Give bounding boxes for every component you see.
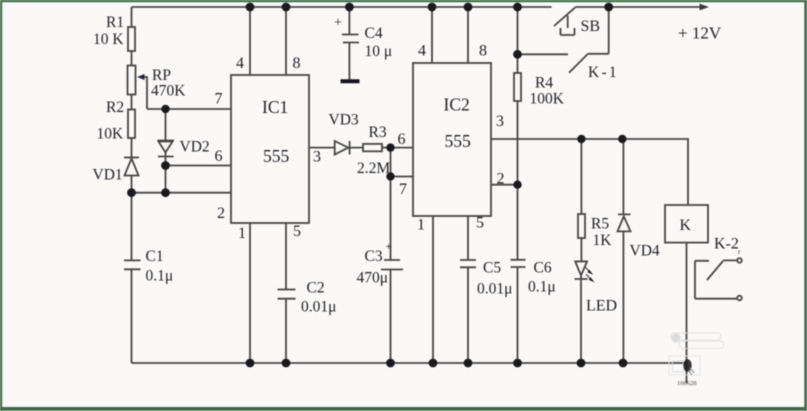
svg-text:+ 12V: + 12V — [678, 24, 722, 43]
svg-text:K: K — [680, 217, 692, 234]
svg-text:10 μ: 10 μ — [365, 43, 393, 60]
svg-text:IC1: IC1 — [262, 97, 288, 117]
svg-text:0.01μ: 0.01μ — [477, 281, 512, 298]
svg-text:R2: R2 — [106, 99, 124, 116]
svg-text:0.1μ: 0.1μ — [528, 279, 556, 296]
svg-text:8: 8 — [479, 43, 487, 60]
svg-text:7: 7 — [399, 181, 407, 198]
svg-text:8: 8 — [293, 55, 301, 72]
svg-text:555: 555 — [263, 146, 290, 166]
svg-text:C2: C2 — [307, 280, 325, 297]
svg-text:LED: LED — [586, 298, 617, 315]
svg-text:470μ: 470μ — [357, 270, 389, 287]
svg-text:100K: 100K — [530, 91, 565, 108]
svg-text:C3: C3 — [365, 248, 383, 265]
svg-text:C4: C4 — [365, 25, 383, 42]
svg-text:1: 1 — [417, 217, 425, 234]
svg-text:R4: R4 — [535, 75, 553, 92]
svg-text:VD1: VD1 — [93, 167, 123, 184]
svg-text:K-2: K-2 — [714, 236, 739, 253]
svg-text:555: 555 — [445, 131, 472, 151]
svg-text:6: 6 — [398, 131, 406, 148]
svg-text:1: 1 — [238, 225, 246, 242]
svg-text:470K: 470K — [151, 83, 186, 100]
svg-text:RP: RP — [152, 67, 171, 84]
svg-text:VD3: VD3 — [329, 112, 359, 129]
svg-text:10 K: 10 K — [93, 31, 124, 48]
svg-text:10K: 10K — [97, 126, 125, 143]
svg-text:K - 1: K - 1 — [588, 64, 616, 81]
svg-text:R3: R3 — [369, 124, 387, 141]
svg-text:5: 5 — [293, 223, 301, 240]
svg-text:VD2: VD2 — [180, 139, 210, 156]
svg-text:7: 7 — [215, 91, 223, 108]
svg-text:1K: 1K — [593, 232, 613, 249]
svg-text:4: 4 — [418, 43, 426, 60]
svg-text:6: 6 — [215, 148, 223, 165]
svg-text:3: 3 — [313, 149, 321, 166]
svg-text:0.1μ: 0.1μ — [146, 268, 174, 285]
svg-text:VD4: VD4 — [630, 243, 660, 260]
svg-text:C1: C1 — [146, 248, 164, 265]
svg-text:3: 3 — [496, 113, 504, 130]
svg-text:2.2M: 2.2M — [357, 160, 390, 177]
svg-text:4: 4 — [236, 55, 244, 72]
svg-text:0.01μ: 0.01μ — [301, 299, 336, 316]
svg-text:SB: SB — [581, 18, 601, 35]
svg-text:+: + — [334, 16, 342, 31]
svg-text:C5: C5 — [483, 260, 501, 277]
svg-text:+: + — [386, 241, 392, 253]
svg-text:R1: R1 — [106, 14, 124, 31]
svg-text:100628: 100628 — [677, 380, 697, 387]
svg-text:5: 5 — [476, 215, 484, 232]
svg-text:IC2: IC2 — [444, 95, 470, 115]
svg-text:R5: R5 — [591, 216, 609, 233]
svg-text:2: 2 — [217, 205, 225, 222]
svg-text:C6: C6 — [534, 260, 552, 277]
svg-text:2: 2 — [497, 171, 505, 188]
